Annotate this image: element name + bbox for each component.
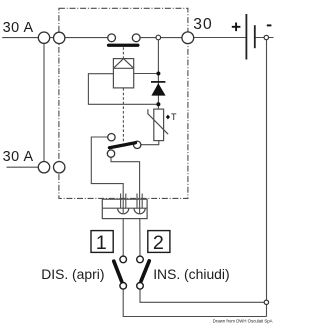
junction dot coil-diode bottom bbox=[156, 102, 160, 106]
connector socket body bbox=[102, 199, 147, 218]
node diode branch top bbox=[156, 35, 161, 40]
battery minus plate bbox=[254, 25, 256, 48]
switch S2 bottom contact bbox=[137, 283, 144, 290]
wire battery minus down right edge bbox=[266, 40, 268, 317]
internal switch contact A bbox=[108, 134, 115, 141]
relay fixed contact left bbox=[108, 34, 116, 42]
wire switch contact B to connector pin2 bbox=[111, 154, 140, 200]
internal switch contact C bbox=[134, 141, 141, 148]
thermistor diagonal stroke bbox=[148, 109, 168, 134]
wire switch contact A to connector pin1 bbox=[91, 137, 123, 200]
thermistor label diamond bbox=[166, 115, 170, 120]
wire coil right to diode junction bbox=[134, 73, 159, 75]
wire connector pin2 through socket bbox=[139, 200, 141, 219]
fuse terminal top inner bbox=[54, 32, 65, 43]
svg-text:30 A: 30 A bbox=[3, 20, 34, 36]
svg-text:30 A: 30 A bbox=[3, 149, 34, 165]
svg-text:INS. (chiudi): INS. (chiudi) bbox=[153, 266, 229, 282]
switch S2 top contact bbox=[137, 256, 144, 263]
svg-text:30: 30 bbox=[193, 16, 213, 33]
battery plus sign bbox=[232, 23, 241, 32]
diode D1 cathode bar bbox=[151, 81, 165, 83]
wire battery minus stub bbox=[255, 37, 274, 39]
position box 2 bbox=[148, 231, 170, 253]
terminal 30 circle bbox=[182, 32, 194, 44]
wire contact2 to terminal 30 bbox=[136, 37, 182, 39]
wire terminal 30 to battery plus bbox=[194, 37, 247, 39]
battery minus sign bbox=[267, 24, 272, 26]
wire thermistor bottom to switch contact C bbox=[137, 141, 159, 145]
node battery minus top bbox=[264, 35, 268, 39]
wire fuse1 to fuse2 vertical link bbox=[43, 43, 45, 161]
switch S1 bottom contact bbox=[120, 283, 127, 290]
relay enclosure dash-dot border bbox=[59, 8, 188, 198]
position box 1 bbox=[91, 231, 113, 253]
switch S1 lever bbox=[114, 261, 122, 281]
connector pin2 socket arc bbox=[134, 208, 145, 214]
mechanical link dashed lower bbox=[122, 88, 124, 142]
wire S2 bottom to minus node bbox=[140, 289, 264, 302]
fuse terminal bottom inner bbox=[54, 162, 65, 173]
svg-text:2: 2 bbox=[153, 232, 164, 254]
diode D1 triangle bbox=[151, 83, 165, 95]
fuse terminal bottom outer bbox=[38, 162, 49, 173]
mechanical link dashed upper bbox=[122, 47, 124, 58]
wire S1 bottom to battery minus rail bbox=[123, 289, 266, 316]
connector pin1 blades bbox=[121, 194, 126, 209]
wire connector pin2 to switch S2 bbox=[139, 219, 141, 257]
relay contact bridge bar bbox=[107, 44, 140, 47]
relay coil actuator box bbox=[113, 59, 133, 88]
relay fixed contact right bbox=[132, 34, 140, 42]
switch S1 top contact bbox=[120, 256, 127, 263]
svg-text:T: T bbox=[171, 112, 177, 122]
battery plus plate bbox=[245, 14, 247, 60]
svg-text:DIS. (apri): DIS. (apri) bbox=[41, 266, 104, 282]
wire top feed left bbox=[2, 37, 111, 39]
connector pin1 socket arc bbox=[118, 208, 129, 214]
svg-text:Drawn from DWH Osculati SpA: Drawn from DWH Osculati SpA bbox=[213, 318, 273, 323]
wire connector pin1 through socket bbox=[122, 200, 124, 219]
svg-text:1: 1 bbox=[96, 232, 107, 254]
junction dot coil-diode top bbox=[156, 72, 160, 76]
node battery minus bottom bbox=[264, 300, 268, 304]
wire connector pin1 to switch S1 bbox=[122, 219, 124, 257]
internal switch contact B bbox=[107, 150, 114, 157]
wire coil left loop bbox=[88, 74, 158, 105]
wire node to diode branch vertical bbox=[157, 38, 159, 110]
wire bottom feed left bbox=[7, 166, 39, 168]
fuse terminal top outer bbox=[38, 32, 49, 43]
thermistor RT body bbox=[154, 109, 164, 141]
switch S2 lever bbox=[141, 261, 149, 281]
connector pin1 wire bbox=[122, 200, 124, 214]
connector pin2 wire bbox=[139, 200, 141, 214]
internal switch lever bbox=[109, 143, 135, 148]
connector pin2 blades bbox=[137, 194, 142, 209]
